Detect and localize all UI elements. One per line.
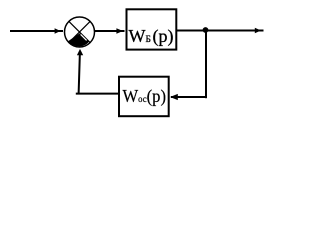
wire: node to output [206, 30, 264, 32]
wire: feedback horizontal left [76, 93, 119, 95]
wire: summing junction to forward block [95, 30, 125, 32]
summing junction X diagonal (top-right to bottom-left) [69, 21, 90, 42]
wire: feedback horizontal right [171, 96, 207, 98]
wire: forward block to takeoff node [177, 30, 207, 32]
wire: feedback vertical left (up to summing junction) [79, 53, 80, 95]
summing junction (comparator circle) [65, 17, 95, 47]
arrowhead: into forward block [116, 28, 123, 34]
arrowhead: output [255, 28, 261, 34]
summing junction filled bottom sector [68, 33, 89, 46]
summing junction X diagonal (top-left to bottom-right) [69, 21, 90, 42]
wire: node down (feedback vertical right) [205, 30, 207, 98]
block W_ос(p) (feedback transfer function) [119, 77, 169, 117]
arrowhead: up into summing junction [77, 49, 83, 55]
white slash inside filled sector [81, 34, 87, 40]
wire: input signal line [10, 30, 63, 32]
arrowhead: input into summing junction [55, 28, 61, 34]
block W_Б(p) (forward transfer function) [127, 9, 177, 49]
arrowhead: into feedback block [170, 94, 178, 100]
node: takeoff point (junction dot) [203, 27, 209, 33]
